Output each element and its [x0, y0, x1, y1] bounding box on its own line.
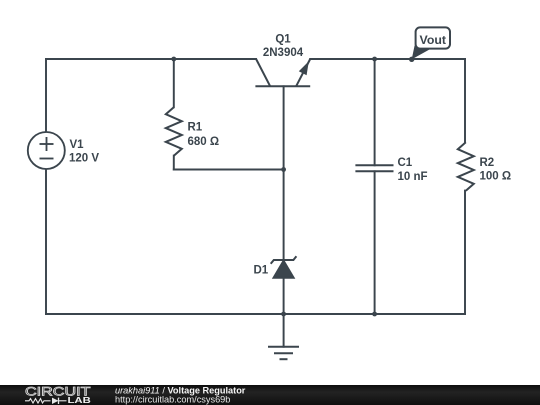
node Vout label box [416, 27, 450, 48]
svg-text:10 nF: 10 nF [398, 171, 428, 183]
ground [268, 347, 299, 360]
svg-text:680 Ω: 680 Ω [188, 136, 220, 148]
transistor Q1 [255, 59, 310, 86]
wire ground stem [283, 314, 285, 347]
capacitor C1 [355, 165, 393, 171]
transistor Q1 emitter arrow [299, 61, 309, 75]
wire C1 top lead [374, 59, 376, 165]
zener diode D1 [271, 256, 297, 278]
svg-text:Vout: Vout [420, 33, 447, 47]
svg-text:LAB: LAB [68, 395, 91, 405]
wire left vertical below V1 [45, 169, 47, 314]
wire R1 bottom lead [173, 156, 175, 170]
wire bottom horizontal [46, 313, 465, 315]
node ground junction [281, 312, 286, 317]
svg-text:2N3904: 2N3904 [263, 47, 304, 59]
wire zener to bottom [283, 278, 285, 314]
Vout flag tail [412, 46, 431, 60]
voltage source V1 [28, 132, 65, 169]
svg-text:V1: V1 [70, 139, 85, 151]
wire left vertical above V1 [45, 59, 47, 132]
node C1 top [372, 57, 377, 62]
resistor R2 [458, 142, 474, 191]
logo diode [52, 398, 59, 404]
svg-text:C1: C1 [398, 157, 413, 169]
svg-text:120 V: 120 V [69, 152, 99, 164]
wire right vertical below R2 [464, 191, 466, 314]
svg-text:http://circuitlab.com/csys69b: http://circuitlab.com/csys69b [115, 395, 230, 405]
svg-text:R1: R1 [188, 121, 203, 133]
node R1 top [171, 57, 176, 62]
footer bar [0, 385, 540, 405]
node C1 bottom [372, 312, 377, 317]
wire R1 to base horizontal [174, 169, 284, 171]
svg-text:R2: R2 [480, 157, 495, 169]
svg-text:Q1: Q1 [275, 34, 291, 46]
node base / R1 junction [281, 167, 286, 172]
wire base vertical to zener [283, 86, 285, 260]
node Vout tap [409, 57, 414, 62]
wire right vertical above R2 [464, 59, 466, 142]
svg-text:100 Ω: 100 Ω [480, 170, 512, 182]
wire top-left horizontal [46, 58, 256, 60]
svg-text:D1: D1 [254, 264, 269, 276]
resistor R1 [166, 107, 182, 156]
logo resistor squiggle [25, 399, 51, 403]
wire C1 bottom lead [374, 171, 376, 314]
wire top-right horizontal [310, 58, 465, 60]
wire R1 top lead [173, 59, 175, 107]
